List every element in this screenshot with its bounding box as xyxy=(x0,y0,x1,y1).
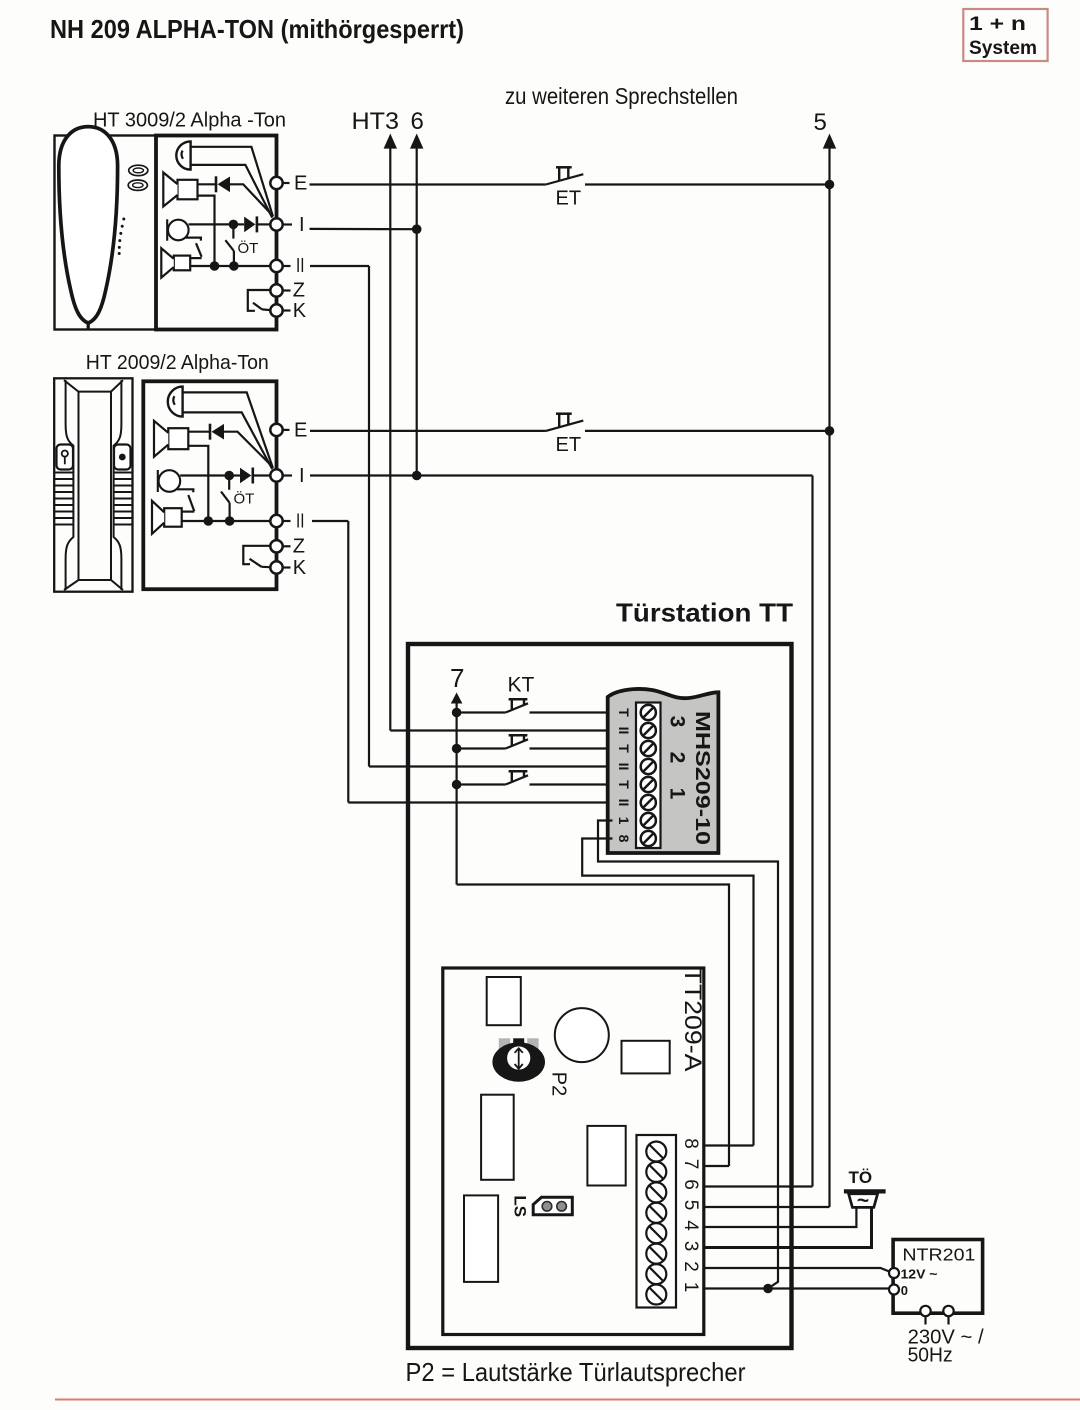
wire E row HT2 xyxy=(310,430,546,432)
wire 7 to KT1 xyxy=(457,711,506,713)
switch KT3 xyxy=(506,775,528,784)
svg-text:ET: ET xyxy=(556,434,582,456)
wire KT3 to MHS xyxy=(530,783,613,785)
HT1 circuit box xyxy=(156,136,277,330)
wire earpiece top to I xyxy=(191,147,273,217)
wire speaker1 to D1 (HT2) xyxy=(188,431,210,433)
stub K HT2 xyxy=(283,566,291,568)
svg-text:ÖT: ÖT xyxy=(234,490,255,508)
terminal Z (HT2) xyxy=(270,540,282,552)
terminal I (HT2) xyxy=(270,469,282,481)
svg-text:6: 6 xyxy=(411,108,424,135)
wire row 6 xyxy=(704,1185,813,1187)
MHS screw 2 xyxy=(641,723,656,738)
wire mic to OT junction xyxy=(189,223,234,225)
diode D1 (HT1) xyxy=(215,176,218,192)
wire 7 to KT2 xyxy=(457,747,506,749)
TT209-A screw 4 xyxy=(646,1223,666,1243)
MHS screw 1 xyxy=(641,705,656,720)
wire row 1 to NTR 0 xyxy=(704,1287,889,1289)
svg-text:8: 8 xyxy=(680,1138,701,1149)
wire KT1 to MHS xyxy=(530,711,613,713)
HT2 speaker lower xyxy=(164,508,182,527)
svg-text:7: 7 xyxy=(450,663,464,693)
arrow HT3 xyxy=(384,134,397,149)
svg-text:E: E xyxy=(294,173,307,195)
receiver bottom tick xyxy=(87,323,90,330)
switch OT (HT1) xyxy=(232,229,234,239)
svg-text:0: 0 xyxy=(901,1283,908,1298)
HT2 call button xyxy=(114,445,131,470)
svg-text:KT: KT xyxy=(508,674,535,697)
HT2 keyhole button xyxy=(57,445,74,470)
svg-text:LS: LS xyxy=(511,1195,530,1217)
svg-text:NTR201: NTR201 xyxy=(902,1245,975,1265)
TT209-A screw 7 xyxy=(646,1162,666,1182)
HT2 speaker upper xyxy=(168,428,188,449)
switch OT (HT2) xyxy=(228,480,230,490)
hook switch blade (HT1) xyxy=(196,243,202,257)
junction mic/OT (HT2) xyxy=(224,471,234,481)
svg-text:HT 3009/2 Alpha -Ton: HT 3009/2 Alpha -Ton xyxy=(93,110,286,132)
svg-text:2: 2 xyxy=(680,1261,701,1272)
svg-text:P2 = Lautstärke Türlautsprech: P2 = Lautstärke Türlautsprecher xyxy=(406,1357,746,1387)
hook switch blade (HT2) xyxy=(188,495,194,511)
component block C xyxy=(481,1095,514,1180)
HT1 microphone xyxy=(168,220,189,241)
svg-text:K: K xyxy=(293,557,307,579)
svg-text:II: II xyxy=(296,511,305,533)
MHS screw 5 xyxy=(641,777,656,792)
svg-text:50Hz: 50Hz xyxy=(908,1345,953,1367)
svg-text:P2: P2 xyxy=(548,1072,570,1096)
svg-text:4: 4 xyxy=(680,1220,701,1231)
ZK bracket (HT1) xyxy=(248,290,270,311)
svg-text:II: II xyxy=(616,727,632,735)
TT209-A screw 1 xyxy=(646,1285,666,1305)
ZK bracket (HT2) xyxy=(243,546,270,564)
MHS screw strip xyxy=(636,703,661,849)
svg-text:8: 8 xyxy=(616,835,632,843)
stub K HT1 xyxy=(283,309,291,311)
terminal E (HT1) xyxy=(270,177,282,189)
HT1 dotted arc xyxy=(122,218,125,221)
terminal 0 xyxy=(889,1285,899,1295)
svg-text:Z: Z xyxy=(293,280,305,302)
MHS screw 6 xyxy=(641,795,656,810)
terminal II (HT1) xyxy=(270,260,282,272)
stub mains L xyxy=(924,1316,926,1324)
TT209-A screw 5 xyxy=(646,1203,666,1223)
1+n System box xyxy=(963,9,1047,61)
ZK blade (HT2) xyxy=(250,559,262,567)
junction riser5/E1 xyxy=(825,180,835,190)
jumper LS xyxy=(533,1197,572,1215)
wire I row HT2 to right riser xyxy=(310,474,813,476)
svg-text:NH 209 ALPHA-TON (mithörgesper: NH 209 ALPHA-TON (mithörgesperrt) xyxy=(50,14,464,44)
wire riser 5 xyxy=(828,146,830,1207)
MHS screw 8 xyxy=(641,831,656,846)
wire row 8 xyxy=(704,1144,754,1146)
wire mic lower xyxy=(186,238,201,241)
wire I row HT1 xyxy=(310,228,417,231)
arrow 6 xyxy=(410,134,423,149)
svg-text:6: 6 xyxy=(680,1179,701,1190)
svg-text:Türstation TT: Türstation TT xyxy=(616,598,793,628)
terminal K (HT2) xyxy=(270,561,282,573)
stub E HT1 xyxy=(283,182,290,184)
switch KT2 xyxy=(506,739,528,748)
HT2 earpiece xyxy=(168,387,183,417)
svg-text:II: II xyxy=(296,255,305,277)
HT2 wall unit outer xyxy=(54,378,132,591)
svg-text:K: K xyxy=(293,300,307,322)
svg-text:I: I xyxy=(299,214,305,236)
svg-text:ET: ET xyxy=(556,188,582,210)
svg-text:12V ~: 12V ~ xyxy=(901,1267,938,1282)
TT209-A screw 8 xyxy=(646,1142,666,1162)
wire 7 line xyxy=(456,701,458,885)
wire KT2 to MHS xyxy=(530,747,613,749)
svg-text:5: 5 xyxy=(814,109,827,136)
wire ET1 to riser 5 xyxy=(585,183,830,185)
svg-text:MHS209-10: MHS209-10 xyxy=(691,711,713,845)
junction riser5/E2 xyxy=(825,426,835,436)
svg-text:ÖT: ÖT xyxy=(238,239,259,257)
wire II HT2 to MHS II-3 xyxy=(348,801,612,803)
wire earpiece bottom to I (HT2) xyxy=(183,412,273,469)
svg-text:2: 2 xyxy=(666,752,689,764)
stub mains N xyxy=(947,1316,949,1324)
switch ET1 xyxy=(546,174,584,184)
wire row 3 to TOE xyxy=(704,1209,872,1248)
svg-text:1 + n: 1 + n xyxy=(969,14,1026,35)
Tuerstation TT box xyxy=(408,644,792,1348)
wire riser HT3 to MHS II-1 xyxy=(390,729,612,731)
TT209-A terminal strip xyxy=(637,1135,677,1308)
wire MHS-8 to terminal 8 xyxy=(582,839,753,1146)
terminal II (HT2) xyxy=(270,515,282,527)
wire mic to OT junction (HT2) xyxy=(180,474,229,476)
svg-text:II: II xyxy=(616,763,632,771)
wire row 7 xyxy=(704,1165,729,1167)
MHS screw 3 xyxy=(641,741,656,756)
wire bottom row to II xyxy=(190,265,270,267)
NTR201 box xyxy=(893,1240,983,1314)
MHS screw 4 xyxy=(641,759,656,774)
stub I HT2 xyxy=(283,474,292,476)
wire row 2 to NTR 12V xyxy=(704,1268,890,1272)
svg-text:System: System xyxy=(969,38,1037,59)
svg-text:TT209-A: TT209-A xyxy=(679,968,706,1072)
wire D2 to terminal I xyxy=(257,223,270,225)
HT2 circuit box xyxy=(143,381,276,589)
svg-text:I: I xyxy=(299,465,305,487)
terminal E (HT2) xyxy=(270,424,282,436)
HT2 speaker grille hatching xyxy=(54,473,132,525)
junction II row a (HT2) xyxy=(204,516,214,526)
svg-text:~: ~ xyxy=(857,1190,869,1213)
junction riser6/I2 xyxy=(412,471,422,481)
diode D2 (HT1) xyxy=(244,217,255,233)
potentiometer P2 xyxy=(499,1038,510,1052)
handset HT1 cradle box xyxy=(55,136,157,330)
svg-text:T: T xyxy=(616,780,632,789)
junction 7/KT3 xyxy=(452,780,462,790)
TT209-A screw 3 xyxy=(646,1244,666,1264)
TT209-A screw 2 xyxy=(646,1264,666,1284)
wire speaker2 top (HT2) xyxy=(182,511,195,513)
junction row1/MHS1 xyxy=(763,1284,773,1294)
terminal Z (HT1) xyxy=(270,284,282,296)
component block B xyxy=(622,1041,670,1074)
wire earpiece top to I (HT2) xyxy=(183,392,273,468)
MHS screw 7 xyxy=(641,813,656,828)
arrow 7 xyxy=(451,693,463,704)
wire row 4 to TOE xyxy=(704,1209,857,1228)
terminal K (HT1) xyxy=(270,304,282,316)
wire I riser down to terminal 6 xyxy=(811,476,813,1187)
stub I HT1 xyxy=(283,223,292,225)
component block A xyxy=(487,977,521,1025)
wire riser HT3 xyxy=(389,146,391,731)
HT1 speaker upper xyxy=(178,180,198,200)
component circle xyxy=(555,1008,609,1062)
TT209-A board xyxy=(443,968,704,1335)
handset HT1 receiver silhouette xyxy=(59,127,118,323)
wire row 5 xyxy=(704,1206,830,1208)
wire speaker1 bottom to II row xyxy=(198,196,215,266)
wire speaker1 bottom to II row (HT2) xyxy=(188,446,208,521)
svg-text:1: 1 xyxy=(616,817,632,825)
svg-text:E: E xyxy=(294,420,307,442)
wire 7 to KT3 xyxy=(457,783,506,785)
wire ET2 to riser 5 xyxy=(585,430,830,432)
svg-text:1: 1 xyxy=(680,1282,701,1293)
wire II HT1 to MHS II-2 xyxy=(369,765,613,767)
wire MHS-1 to NTR 0 net xyxy=(598,821,778,1289)
door opener TOE xyxy=(844,1189,886,1193)
wire earpiece bottom to I xyxy=(191,165,273,218)
ZK blade (HT1) xyxy=(253,303,262,310)
junction II row b (HT2) xyxy=(225,516,235,526)
wire II HT1 riser xyxy=(368,266,370,767)
terminal mains N xyxy=(943,1306,953,1316)
wire E row HT1 xyxy=(310,183,546,185)
diode D1 (HT2) xyxy=(209,424,212,440)
component block D xyxy=(587,1126,625,1186)
junction 7/KT1 xyxy=(452,708,462,718)
svg-text:7: 7 xyxy=(680,1159,701,1170)
wire D2 to terminal I (HT2) xyxy=(253,474,270,476)
wire D1 to I xyxy=(230,184,273,216)
svg-text:II: II xyxy=(616,799,632,807)
wire D1 to I (HT2) xyxy=(224,432,273,467)
wire junction to diode D2 xyxy=(233,223,244,225)
HT1 earpiece xyxy=(176,141,190,169)
svg-text:T: T xyxy=(616,744,632,753)
HT1 button upper xyxy=(129,165,148,175)
wire speaker1 to diode D1 xyxy=(198,183,217,185)
stub E HT2 xyxy=(283,429,290,431)
svg-text:zu weiteren Sprechstellen: zu weiteren Sprechstellen xyxy=(505,83,738,109)
svg-text:Z: Z xyxy=(293,536,305,558)
junction II row a xyxy=(210,261,220,271)
svg-text:5: 5 xyxy=(680,1200,701,1211)
svg-text:T: T xyxy=(616,708,632,717)
wire speaker2 top xyxy=(190,257,201,259)
terminal I (HT1) xyxy=(270,218,282,230)
wire II HT2 riser xyxy=(347,521,349,803)
wire mic lower (HT2) xyxy=(177,489,193,492)
svg-text:HT3: HT3 xyxy=(352,108,400,135)
wire II row HT1 xyxy=(310,265,369,267)
HT2 microphone xyxy=(159,470,181,492)
svg-text:3: 3 xyxy=(666,716,689,728)
wire riser 6 xyxy=(416,146,418,476)
stub II HT2 xyxy=(283,520,291,522)
junction II row b xyxy=(229,261,239,271)
junction mic/OT xyxy=(229,220,239,230)
MHS209-10 terminal block xyxy=(608,689,719,853)
stub Z HT2 xyxy=(283,545,291,547)
junction riser6/I1 xyxy=(412,224,422,234)
component block E xyxy=(464,1195,498,1282)
HT1 button lower xyxy=(128,180,147,190)
HT1 speaker lower xyxy=(174,256,190,271)
red separator line xyxy=(55,1399,1080,1401)
svg-text:1: 1 xyxy=(666,788,689,800)
arrow 5 xyxy=(823,134,836,149)
wire bottom row to II (HT2) xyxy=(182,520,271,522)
terminal mains L xyxy=(920,1306,930,1316)
switch KT1 xyxy=(506,703,528,712)
stub Z HT1 xyxy=(283,289,291,291)
wire II row HT2 xyxy=(312,520,348,522)
TT209-A screw 6 xyxy=(646,1182,666,1202)
HT2 wall unit front contour xyxy=(64,380,123,590)
switch ET2 xyxy=(546,421,584,431)
terminal 12V xyxy=(889,1268,899,1278)
svg-text:TÖ: TÖ xyxy=(849,1168,873,1187)
stub II HT1 xyxy=(283,265,291,267)
wire 7 line to terminal 7 xyxy=(457,885,729,1167)
svg-text:HT 2009/2 Alpha-Ton: HT 2009/2 Alpha-Ton xyxy=(86,352,269,374)
junction 7/KT2 xyxy=(452,744,462,754)
diode D2 (HT2) xyxy=(240,468,251,484)
wire OT to II row xyxy=(233,262,235,267)
svg-text:3: 3 xyxy=(680,1241,701,1252)
